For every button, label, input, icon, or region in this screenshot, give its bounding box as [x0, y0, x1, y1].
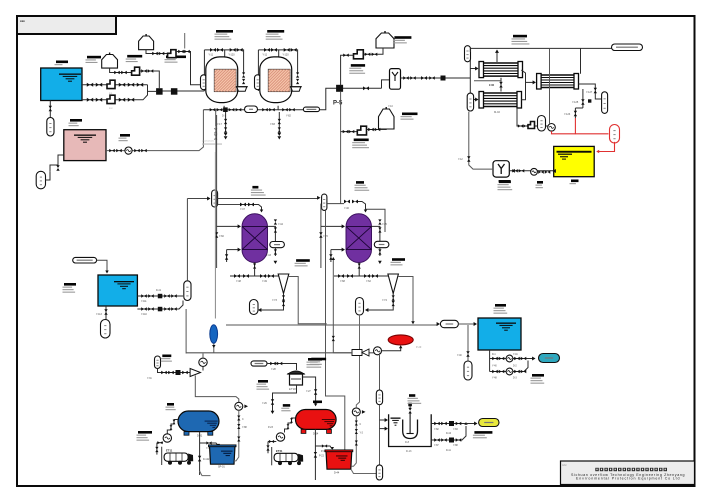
drop to transfer pump	[195, 375, 239, 402]
capsule on riser V01	[201, 75, 207, 90]
raw water tank T-01 (cyan)	[41, 68, 82, 101]
wire capsule to T-03 top	[97, 260, 107, 271]
valves top header V01	[210, 48, 216, 52]
svg-text:Y-48: Y-48	[236, 280, 241, 283]
label yellow capsule	[474, 431, 492, 434]
label above V-01	[216, 30, 233, 33]
wire into softener1 top	[254, 205, 262, 211]
softener feed header	[187, 198, 208, 200]
teal outlet capsule	[539, 354, 560, 363]
softener2 right side port	[372, 226, 380, 241]
feed riser V01	[203, 90, 205, 91]
label blue tank	[167, 403, 174, 406]
label ET-18 right	[308, 358, 322, 361]
pump on T-02 outlet	[125, 147, 132, 154]
P-5 flow meter on transfer line	[336, 85, 343, 92]
sludge truck 2	[274, 453, 298, 461]
svg-text:Y-49: Y-49	[262, 280, 267, 283]
backwash dish V01	[237, 87, 247, 92]
svg-text:Y-113: Y-113	[96, 314, 102, 316]
red tank inlet stair valves	[285, 418, 296, 433]
pulsation damper capsule below T-01	[47, 118, 54, 137]
wire M-01 center to M-02 center	[500, 78, 502, 92]
capsule above stirred tank	[376, 390, 382, 405]
svg-text:D-13: D-13	[406, 450, 412, 453]
T-04 outlet rows	[489, 350, 491, 372]
wire into vessel top V02	[278, 50, 280, 58]
wire concentrate drop	[582, 89, 584, 108]
clean water tank T-05 (yellow)	[554, 146, 595, 176]
svg-text:Y-87: Y-87	[434, 445, 439, 447]
label above softener 1	[252, 186, 258, 189]
stirrer	[409, 414, 411, 434]
Y strainer S-01	[390, 69, 401, 90]
cone1 drain stack	[283, 294, 285, 307]
svg-text:Y-12: Y-12	[458, 159, 463, 161]
svg-text:Environmental Protection Equip: Environmental Protection Equipment Co Lt…	[576, 476, 680, 480]
blue pressure tank	[178, 411, 219, 432]
wire hopper H-01 to dosing pump	[110, 68, 132, 72]
gray riser pump to small tank	[235, 402, 243, 410]
svg-text:Y-74: Y-74	[382, 299, 387, 302]
capsule below T-04 left	[464, 361, 472, 380]
label H-02 area	[127, 55, 142, 58]
svg-text:Y-120: Y-120	[228, 54, 235, 57]
svg-text:D-10: D-10	[446, 433, 452, 435]
svg-text:Y-47: Y-47	[240, 208, 245, 211]
svg-text:Y-41: Y-41	[513, 354, 518, 356]
blue tank bottom drain line	[199, 432, 201, 475]
wire hopper H-02 to dosing pump DP-02	[146, 50, 168, 54]
gray reuse riser with bag filter	[214, 152, 216, 319]
feed capsule upper	[465, 46, 471, 62]
capsule ZW-1	[245, 106, 258, 113]
media bed hatch V02	[268, 69, 290, 92]
right drop valves V01	[242, 72, 245, 77]
label cone2	[392, 258, 405, 261]
bag filter blue ellipse	[210, 325, 218, 343]
softener1 left side connections	[216, 115, 218, 268]
svg-text:Y-88: Y-88	[453, 445, 458, 447]
svg-text:P-29: P-29	[416, 346, 422, 349]
label DP-03	[351, 64, 365, 67]
svg-text:Y-62: Y-62	[366, 280, 371, 283]
cone2 drain stack	[392, 294, 394, 307]
svg-text:Y-60: Y-60	[219, 235, 224, 238]
svg-text:Y-123: Y-123	[564, 113, 571, 116]
permeate header	[470, 47, 611, 49]
wire T-02 left drain	[50, 155, 64, 171]
valves to softener2 top	[344, 200, 350, 204]
concentrate capsule	[602, 92, 608, 114]
svg-text:ET'11: ET'11	[166, 450, 173, 453]
softener vessel R-02	[346, 214, 372, 263]
svg-text:P-22: P-22	[319, 456, 325, 458]
feeder riser to stirred tank	[379, 353, 381, 390]
red CIP capsule	[610, 125, 620, 144]
branch to small red tank	[315, 446, 332, 449]
feed riser V02	[257, 90, 259, 91]
wire S-02 west then up to UF feed capsule	[469, 112, 493, 169]
svg-text:▭▭: ▭▭	[562, 464, 567, 467]
red dosing tank (oval)	[296, 410, 337, 430]
svg-text:D-11: D-11	[446, 450, 452, 452]
capsule below T-03	[101, 320, 111, 339]
svg-text:Y-82: Y-82	[286, 115, 291, 118]
blue small tank	[210, 446, 236, 464]
wire tank T-01 bottom drain	[49, 101, 51, 118]
pump row 1 valves	[87, 83, 93, 87]
label H-01	[87, 56, 101, 59]
blower red ellipse P-29	[388, 335, 413, 345]
capsule right softener2	[374, 241, 389, 247]
sludge truck 1	[164, 453, 188, 461]
media bed hatch V01	[214, 69, 236, 92]
svg-text:Y-83: Y-83	[453, 429, 458, 431]
bottom connector red small tank to capsule	[351, 469, 376, 473]
label above softener 2	[356, 181, 364, 184]
label red tank	[313, 401, 322, 404]
svg-text:Y-45: Y-45	[382, 223, 387, 226]
injection point square 1	[156, 88, 163, 95]
permeate capsule outlet	[612, 44, 643, 51]
svg-text:Y-11: Y-11	[208, 54, 213, 57]
title block top-left	[17, 16, 116, 34]
wire S-02 to yellow tank	[509, 170, 553, 172]
red small tank	[326, 451, 352, 469]
svg-text:M-02: M-02	[494, 110, 500, 114]
UF membrane module M-03	[541, 75, 575, 88]
wire DP-03 to H-03	[363, 48, 383, 54]
wire T-01 outlet to pump rows	[82, 84, 148, 86]
dosing hopper H-01	[109, 53, 111, 55]
svg-text:Y-111: Y-111	[141, 301, 147, 303]
label cone1	[296, 259, 310, 262]
label right of rows	[532, 374, 544, 377]
svg-text:Y-10: Y-10	[388, 105, 393, 108]
riser down from P-5 line to softener section	[340, 92, 342, 204]
V-02 drain stack	[278, 112, 280, 132]
wire UF feed riser	[470, 52, 477, 100]
dosing pump DP-01	[132, 67, 140, 75]
right drop valves V02	[296, 72, 299, 77]
svg-text:Y-40: Y-40	[457, 355, 462, 357]
top header V01	[204, 50, 243, 74]
backwash dish V02	[291, 87, 301, 92]
capsule below left	[376, 465, 382, 480]
dosing pump DP-03	[354, 50, 364, 59]
label sludge station	[162, 355, 171, 358]
riser capsule to softener header	[186, 199, 188, 281]
blower feed pump	[374, 347, 382, 355]
reuse riser tap	[215, 110, 217, 126]
svg-text:D-41: D-41	[156, 290, 162, 292]
wire feed bypass under M1	[474, 80, 501, 82]
wire DP-01 to injection sq1	[140, 71, 160, 88]
svg-text:Y-17: Y-17	[217, 123, 222, 126]
labels around yellow tank	[499, 181, 511, 184]
wire M-03 top riser to header	[580, 48, 582, 73]
valve T-02 drain	[56, 165, 59, 171]
svg-text:Y-44: Y-44	[278, 223, 283, 226]
backwash pump line y126	[517, 108, 548, 126]
filter vessel V02	[260, 57, 292, 103]
svg-text:Y-127: Y-127	[586, 91, 593, 94]
svg-text:Y-73: Y-73	[272, 299, 277, 302]
resin trap cone 2	[388, 274, 399, 294]
capsule on T-04 feed	[440, 320, 458, 327]
sludge eductor station	[155, 356, 161, 369]
ET-18 side line to riser	[303, 377, 316, 404]
dosing pump DP-02	[168, 50, 176, 58]
svg-text:Y-11: Y-11	[262, 54, 267, 57]
label above membranes	[513, 35, 527, 38]
svg-text:D-8: D-8	[405, 441, 410, 444]
main feed line with injection squares	[156, 90, 204, 92]
resin trap cone 1	[278, 274, 289, 294]
label stirred tank	[409, 394, 415, 397]
svg-text:D-122: D-122	[203, 459, 210, 461]
svg-text:Y-83: Y-83	[270, 123, 275, 126]
filter vessel V01	[206, 57, 238, 103]
pump on tank outlet	[531, 168, 538, 175]
wire into vessel top V01	[224, 50, 226, 58]
UF membrane module M-02	[483, 93, 518, 107]
svg-text:P-23: P-23	[268, 427, 274, 429]
softener1 bottom row	[254, 263, 256, 269]
stirred tank container D-13	[389, 414, 432, 446]
label T-04	[495, 304, 506, 307]
red tank bottom drain line	[314, 429, 316, 480]
yellow outlet capsule	[479, 419, 499, 427]
label above V-02	[267, 30, 284, 33]
softener1 right side port	[268, 226, 276, 241]
wire M-01 right down	[521, 70, 525, 100]
wire DP-03 down to line	[341, 55, 354, 85]
labels left of T-03	[64, 283, 76, 286]
valves on bottom header	[210, 108, 216, 111]
svg-text:Y-68: Y-68	[340, 280, 345, 283]
eductor funnel	[190, 369, 200, 377]
V-01 drain stack	[225, 112, 227, 132]
small vessel ET-18	[290, 374, 303, 385]
softener vessel R-01	[242, 214, 268, 263]
svg-text:▭▭▭▭: ▭▭▭▭	[202, 139, 214, 143]
label T-01	[56, 61, 68, 64]
company title block	[561, 461, 695, 485]
capsule on header 2	[322, 194, 327, 210]
product tank T-04 (cyan)	[478, 318, 521, 350]
label left of red tank	[258, 380, 268, 383]
dosing pump DP-04	[341, 131, 358, 133]
long vertical trunks between sections	[326, 210, 345, 451]
label T-02	[70, 119, 82, 122]
feed capsule lower	[467, 93, 473, 111]
capsule on header 1	[212, 190, 218, 207]
ET-18 bottom drain	[273, 385, 297, 411]
wire strainer to UF	[401, 77, 471, 79]
wire M-03 right discharge	[579, 84, 602, 99]
svg-text:D-34: D-34	[313, 433, 319, 436]
svg-text:Y-110: Y-110	[141, 314, 147, 316]
valves top header V02	[264, 48, 270, 52]
cone2 to riser toward trunk	[398, 277, 413, 323]
svg-text:■■■: ■■■	[20, 20, 25, 23]
capsule softener1 drain	[250, 300, 259, 315]
pump row 2 valves	[87, 98, 93, 102]
capsule on riser V02	[255, 75, 261, 90]
red CIP return line	[575, 118, 608, 134]
svg-text:Y-27: Y-27	[306, 391, 311, 393]
valve below T-01	[49, 106, 52, 112]
branch to small blue tank	[200, 443, 218, 446]
svg-text:Z-06: Z-06	[489, 84, 495, 87]
left long drop to sludge station	[185, 309, 187, 354]
wire membranes to M-03	[526, 81, 535, 83]
backwash pump house	[528, 122, 535, 129]
softener2 left side connections	[320, 204, 322, 268]
waste water tank T-02 (pink)	[64, 130, 106, 161]
svg-text:Y-120: Y-120	[282, 54, 289, 57]
label right of H-02	[166, 56, 186, 59]
svg-text:Y-29: Y-29	[262, 403, 267, 405]
wire DP-02 injection to V1 feed capsule	[176, 52, 201, 85]
stirred tank outlet rows	[431, 423, 466, 425]
capsule K	[538, 116, 546, 132]
svg-text:Y-125: Y-125	[572, 101, 579, 104]
top header V02	[258, 50, 297, 74]
dosing hopper H-04	[385, 107, 387, 109]
capsule right softener1	[270, 242, 285, 248]
label pump T-02	[120, 134, 130, 137]
svg-text:D-44: D-44	[334, 472, 340, 475]
bottom header V1-V2	[203, 109, 244, 111]
injection point square 2	[171, 88, 178, 95]
wire to yellow capsule outlet	[466, 423, 476, 425]
UF membrane module M-01	[483, 63, 519, 76]
pump circle feeding red tank	[276, 433, 284, 441]
Y strainer box S-02	[493, 161, 509, 177]
softener2 bottom row	[358, 263, 360, 269]
capsule left of T-02	[36, 171, 45, 189]
svg-text:Y-43: Y-43	[266, 254, 271, 257]
label right of H-03	[394, 36, 411, 39]
label DP-04	[354, 139, 369, 142]
svg-text:Y-88: Y-88	[242, 427, 247, 429]
T-03 outlet rows	[137, 295, 183, 297]
branch to softener2 right side	[366, 209, 386, 232]
valve after P-5	[363, 86, 369, 90]
recirculation pump circle	[199, 358, 207, 366]
svg-text:Y-28: Y-28	[271, 369, 276, 371]
svg-text:SP-01: SP-01	[218, 466, 225, 469]
svg-text:Y-31: Y-31	[147, 378, 152, 380]
svg-text:ET'18: ET'18	[289, 387, 296, 391]
capsule softener2 drain	[356, 298, 364, 316]
capsule after T-03 pumps	[184, 281, 191, 301]
feed capsule to T-03	[73, 257, 97, 263]
label UF feed	[402, 113, 418, 116]
bottom connector blue small tank	[200, 471, 211, 476]
svg-text:Y-82: Y-82	[434, 429, 439, 431]
intermediate tank T-03 (cyan)	[98, 275, 137, 306]
svg-text:Y-40: Y-40	[492, 366, 497, 368]
cone1 to trunk riser	[289, 277, 327, 324]
dosing hopper H-02	[145, 34, 147, 36]
T-04 suction drop from trunk	[467, 325, 469, 361]
dosing hopper H-03	[384, 31, 386, 33]
pump P-02 row2	[107, 95, 115, 103]
label sludge truck station	[138, 431, 152, 434]
pump P-01 row1	[107, 80, 115, 88]
svg-text:Y-46: Y-46	[344, 207, 349, 210]
crucible D-8	[403, 420, 418, 439]
svg-text:P-5: P-5	[333, 101, 343, 107]
blue tank inlet stair valves	[167, 420, 178, 434]
capsule ZW-2	[303, 107, 319, 112]
valves to softener1 top	[240, 203, 246, 207]
T-03 bottom drain	[105, 306, 107, 320]
svg-text:Y-48: Y-48	[492, 378, 497, 380]
label trunk mid	[311, 358, 326, 361]
pump circle feeding blue tank	[163, 434, 171, 442]
trunk to clean tank T-04	[226, 324, 438, 326]
instrument on UF feed	[441, 76, 446, 81]
label drain	[283, 404, 290, 407]
valves left of red pump	[268, 441, 276, 443]
wire T-02 outlet to riser	[106, 110, 203, 151]
circulation pump circle	[548, 124, 556, 132]
svg-text:ET'21: ET'21	[276, 450, 283, 453]
gray riser pump to small red tank	[352, 408, 360, 416]
horizontal trunk line y352.8	[186, 352, 379, 354]
valves left of pump	[157, 442, 163, 444]
capsule feed to ET-18	[251, 361, 267, 366]
